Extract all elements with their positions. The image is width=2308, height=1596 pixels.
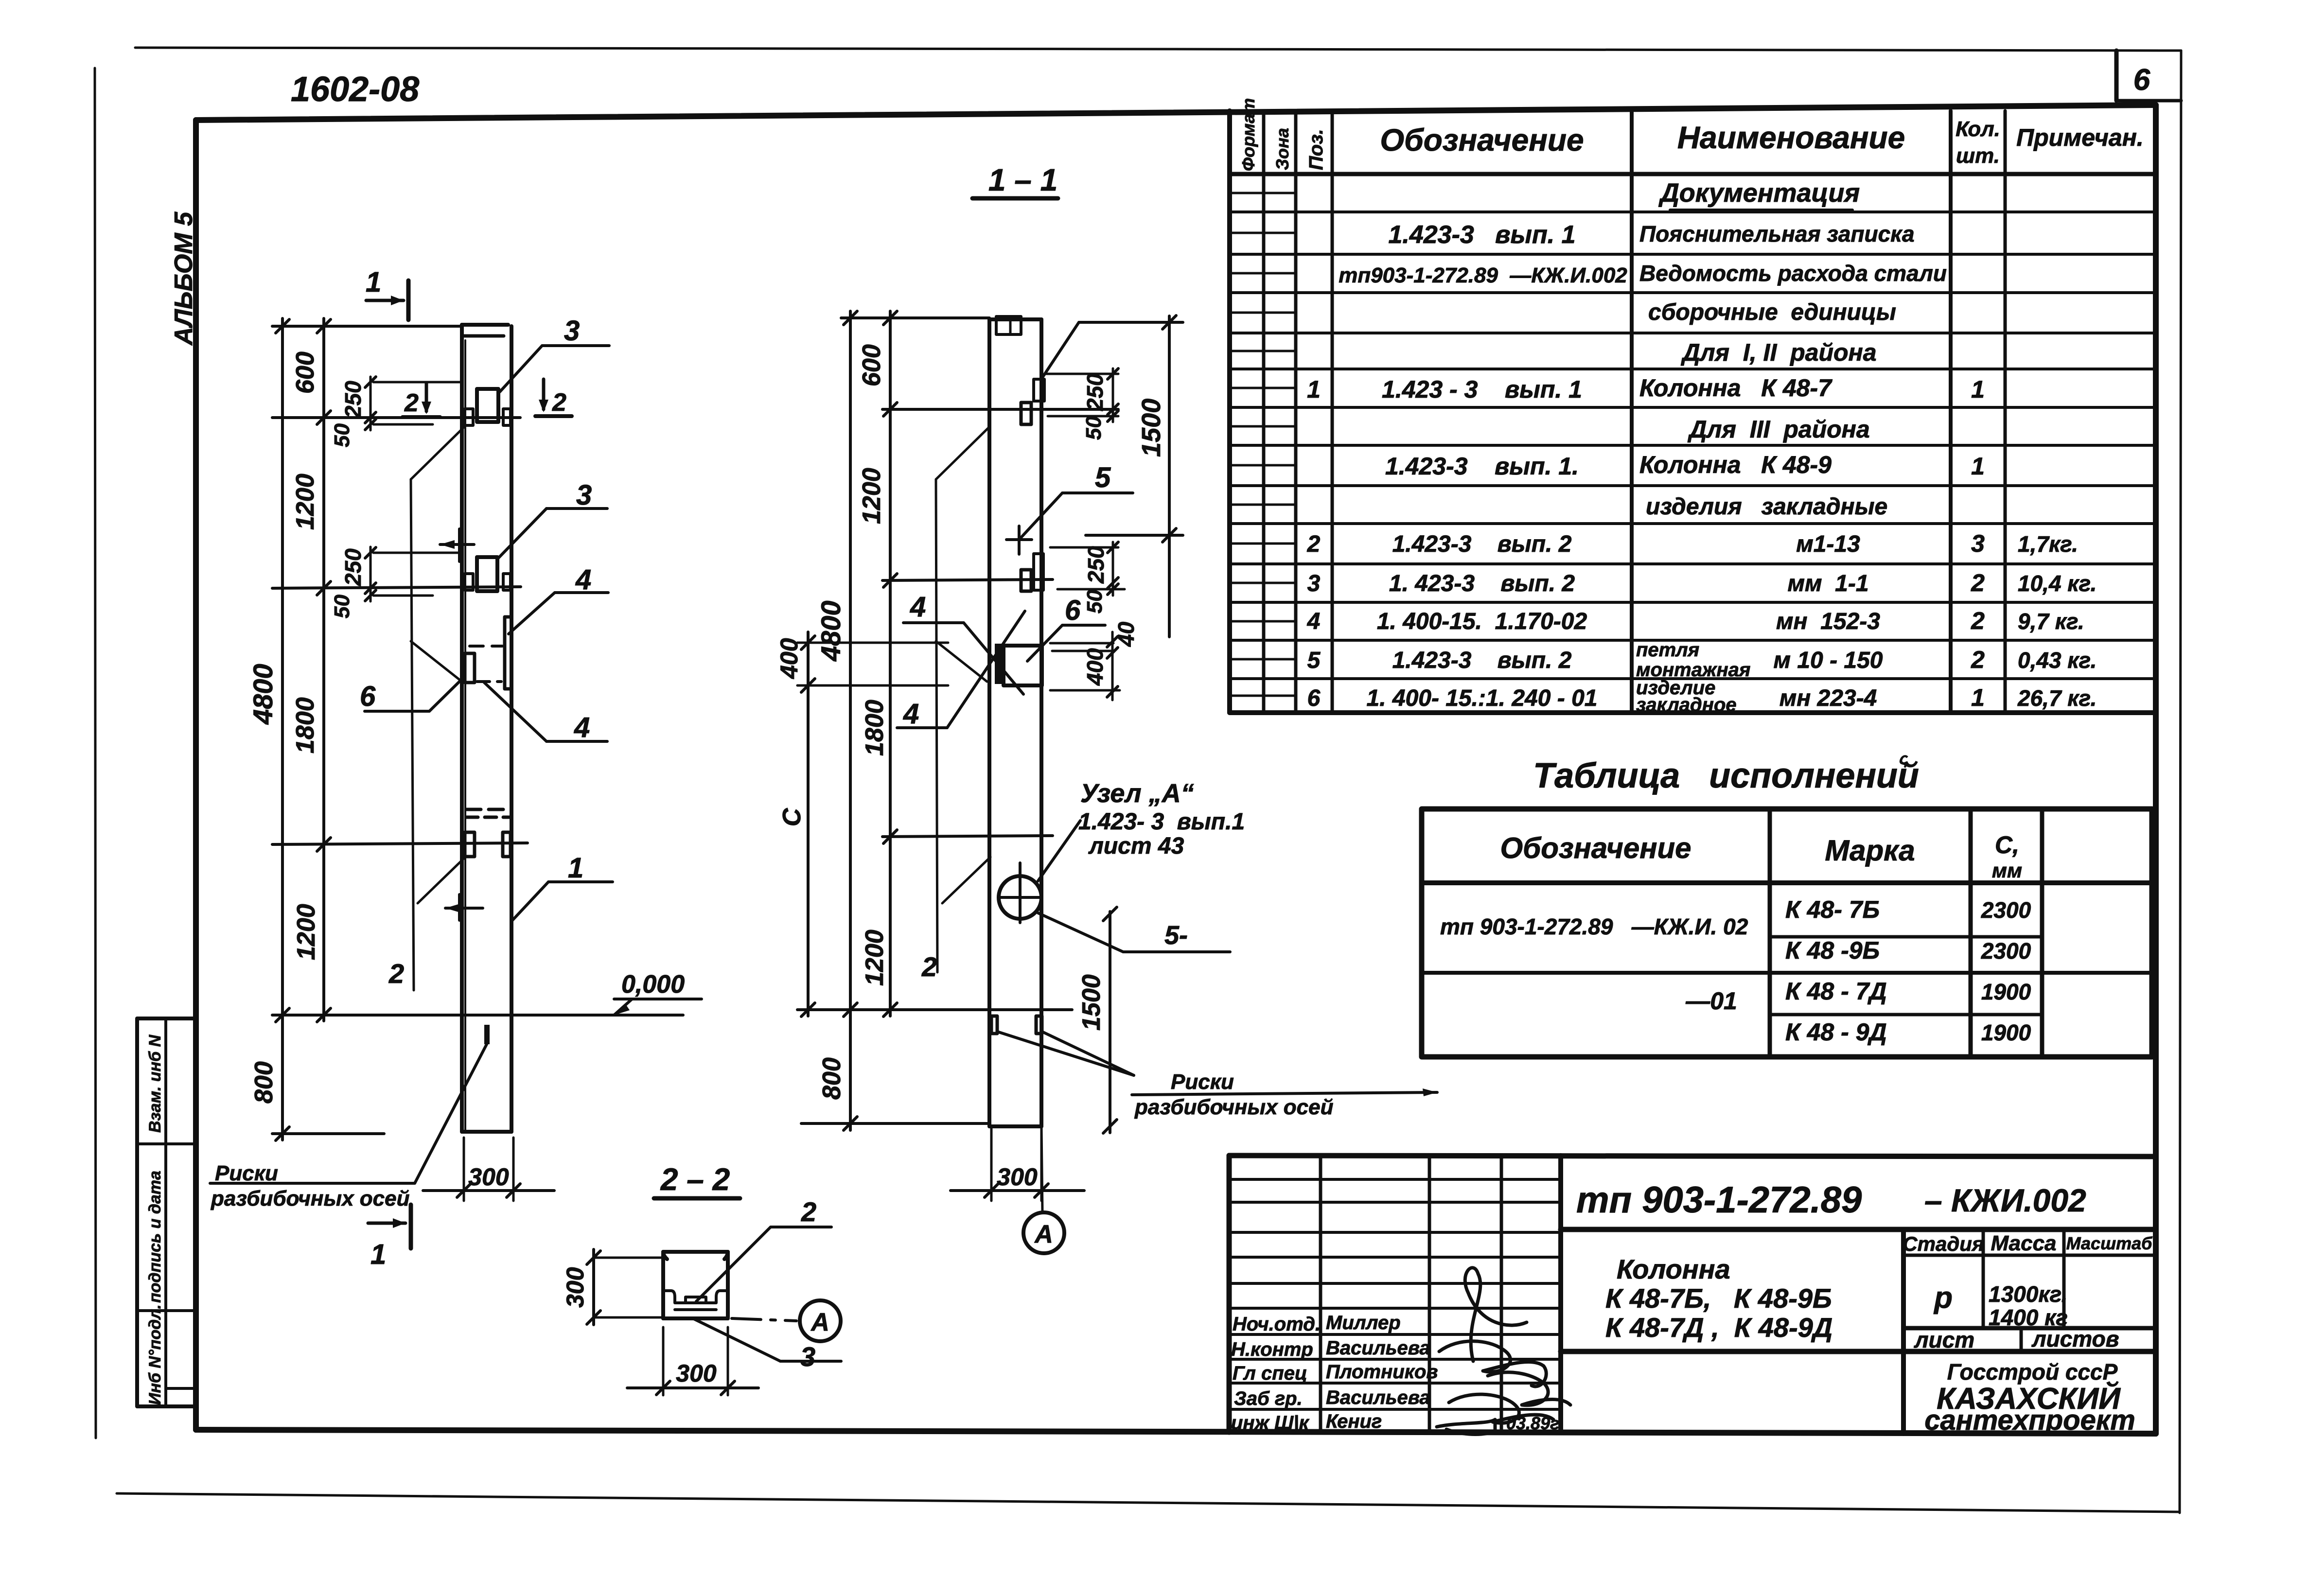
svg-text:400: 400 [775,638,803,679]
handwritten archive number 1602-08 [291,70,419,109]
svg-text:1300кг.: 1300кг. [1989,1281,2067,1307]
svg-text:2300: 2300 [1981,897,2031,923]
svg-text:2: 2 [388,958,404,989]
svg-text:Гл спец: Гл спец [1233,1363,1307,1384]
title block right part grid [1561,1229,2156,1434]
view1 leader 4 bottom [484,683,607,743]
view2 leader to 1500 dim top [1043,322,1183,377]
view1 extension/level lines [272,326,528,1015]
signature rows labels [1231,1312,1564,1434]
svg-text:ς: ς [1899,750,1908,768]
svg-text:С,: С, [1995,831,2019,859]
view1 section trace 2-2 [388,427,465,990]
view1 cross mark bottom [445,894,483,920]
view2 top plate [996,316,1021,334]
left margin stamp labels [146,1034,164,1405]
svg-text:6: 6 [2133,63,2150,97]
view1 level mark 0,000 [380,970,702,1015]
svg-text:2 – 2: 2 – 2 [660,1162,730,1197]
svg-text:Обозначение: Обозначение [1500,832,1691,864]
svg-text:Васильева: Васильева [1326,1337,1430,1359]
svg-text:шт.: шт. [1956,144,2000,168]
view2 small dims 250/50 top [1045,368,1118,440]
section 2-2 dim 300 vertical [562,1249,661,1325]
svg-text:1200: 1200 [858,468,886,524]
svg-text:2: 2 [1971,569,1985,596]
svg-text:4: 4 [910,591,926,623]
svg-text:1200: 1200 [291,474,319,530]
organization name [1924,1359,2135,1436]
svg-text:2: 2 [801,1196,816,1227]
svg-text:С: С [778,807,806,826]
svg-text:Примечан.: Примечан. [2016,124,2144,151]
view1 lifting loop cross mark [440,529,474,561]
svg-text:мм: мм [1992,859,2022,882]
view1 section mark 2 left [403,383,440,417]
svg-text:3: 3 [576,479,592,511]
view1 hidden plate dashes middle [466,809,510,817]
svg-text:мн 152-3: мн 152-3 [1776,609,1880,634]
view2 uzel A callout [1038,779,1245,881]
svg-text:4: 4 [575,564,591,596]
svg-text:тп 903-1-272.89 —КЖ.И. 02: тп 903-1-272.89 —КЖ.И. 02 [1440,914,1748,939]
svg-text:300: 300 [997,1163,1038,1191]
svg-text:Марка: Марка [1825,834,1915,867]
svg-text:3: 3 [800,1341,815,1372]
svg-text:мм 1-1: мм 1-1 [1787,571,1868,596]
svg-text:листов: листов [2031,1326,2119,1351]
svg-text:1.423- 3 вып.1: 1.423- 3 вып.1 [1078,809,1245,835]
svg-text:К 48 - 9Д: К 48 - 9Д [1785,1018,1887,1046]
svg-text:тп903-1-272.89 —КЖ.И.002: тп903-1-272.89 —КЖ.И.002 [1339,263,1627,287]
svg-text:2300: 2300 [1981,938,2031,964]
svg-text:Колонна К 48-7: Колонна К 48-7 [1639,374,1832,402]
title block signature grid [1229,1156,1561,1432]
svg-text:Инб N°подл.: Инб N°подл. [146,1304,164,1405]
svg-text:Заб гр.: Заб гр. [1234,1388,1303,1409]
svg-text:5-: 5- [1164,921,1188,950]
svg-text:– КЖИ.002: – КЖИ.002 [1924,1182,2086,1218]
svg-text:Колонна: Колонна [1617,1254,1730,1284]
svg-text:4: 4 [1307,609,1321,634]
view1 leader 4 top [509,564,608,634]
svg-text:Ноч.отд.: Ноч.отд. [1233,1314,1321,1335]
section 2-2 leader 3 [693,1318,841,1372]
svg-text:26,7 кг.: 26,7 кг. [2017,685,2097,711]
svg-text:50: 50 [330,595,354,618]
svg-text:разбибочных осей: разбибочных осей [1134,1095,1334,1119]
view2 section trace 2 [921,427,990,982]
svg-text:подпись и дата: подпись и дата [146,1171,164,1303]
svg-text:Зона: Зона [1272,128,1292,170]
svg-text:разбибочных осей: разбибочных осей [211,1187,410,1210]
svg-text:50: 50 [1083,590,1107,614]
svg-text:300: 300 [676,1360,717,1387]
svg-text:250: 250 [1082,373,1108,411]
svg-text:петля: петля [1636,639,1699,661]
view2 dim 800 [801,1021,987,1130]
svg-text:А: А [1034,1220,1053,1248]
view1 brackets at level 1800 [465,832,511,857]
svg-text:1800: 1800 [861,700,889,756]
view1 bottom axis riska mark [484,1025,490,1044]
svg-text:сборочные единицы: сборочные единицы [1648,299,1896,325]
svg-text:Наименование: Наименование [1677,120,1905,155]
svg-text:мн 223-4: мн 223-4 [1779,685,1877,711]
svg-text:Госстрой сссР: Госстрой сссР [1947,1359,2118,1385]
left margin stamp boxes [137,1018,196,1406]
view2 total dim 4800 [815,311,857,1021]
svg-text:1: 1 [568,852,583,884]
view1 small dims 250/50 top [330,377,462,447]
drawing frame (thick border) [196,105,2156,1434]
view1 column body K48 [462,325,511,1132]
svg-text:1.423-3 вып. 2: 1.423-3 вып. 2 [1392,648,1572,673]
svg-text:3: 3 [1307,571,1321,596]
part name Колонна [1605,1254,1832,1343]
svg-text:10,4 кг.: 10,4 кг. [2018,571,2097,596]
view2 dim 1500 top right [1086,316,1183,637]
svg-text:1,7кг.: 1,7кг. [2018,531,2078,557]
svg-text:К 48-7Д , К 48-9Д: К 48-7Д , К 48-9Д [1605,1312,1832,1343]
view2 embedded item6 box [995,644,1042,685]
svg-text:сантехпроект: сантехпроект [1924,1404,2135,1436]
svg-text:1500: 1500 [1137,399,1166,457]
svg-text:—01: —01 [1685,987,1737,1015]
svg-text:Ведомость расхода стали: Ведомость расхода стали [1639,261,1947,286]
svg-text:1. 400- 15.:1. 240 - 01: 1. 400- 15.:1. 240 - 01 [1367,685,1598,711]
view2 leader 6 [1027,595,1105,661]
svg-text:50: 50 [330,423,354,447]
svg-text:1.423 - 3 вып. 1: 1.423 - 3 вып. 1 [1382,376,1582,403]
view1 embedded plate item3 middle [465,557,511,591]
view1 small dims 250/50 middle [330,547,462,618]
view1 leader 3 middle [497,479,607,559]
svg-text:Для I, II района: Для I, II района [1680,339,1876,366]
svg-text:40: 40 [1113,621,1139,647]
svg-text:инж Ш|к: инж Ш|к [1231,1412,1310,1434]
view2 segment dim line [858,311,897,1017]
svg-text:600: 600 [291,351,319,394]
svg-text:600: 600 [858,344,886,386]
svg-text:3: 3 [1971,530,1985,557]
specification table grid [1230,111,2156,713]
svg-text:А: А [810,1308,829,1336]
svg-text:Поз.: Поз. [1305,129,1327,170]
svg-text:Плотников: Плотников [1326,1361,1438,1383]
svg-text:Колонна К 48-9: Колонна К 48-9 [1639,451,1832,478]
svg-text:1.423-3 вып. 1.: 1.423-3 вып. 1. [1385,453,1579,480]
svg-text:Васильева: Васильева [1326,1387,1430,1408]
section 2-2 dim 300 horizontal [627,1327,758,1395]
svg-text:300: 300 [468,1163,509,1191]
svg-text:4800: 4800 [815,600,846,662]
svg-text:6: 6 [1065,595,1081,626]
svg-text:1: 1 [1971,453,1985,480]
svg-text:800: 800 [250,1061,278,1104]
svg-text:Миллер: Миллер [1326,1312,1401,1333]
svg-text:2: 2 [1971,607,1985,634]
svg-text:250: 250 [1083,546,1109,584]
svg-text:Кениг: Кениг [1326,1411,1382,1432]
svg-text:Риски: Риски [1171,1070,1234,1094]
view2 axis line to circle A [1023,1126,1064,1253]
svg-text:Кол.: Кол. [1956,117,2000,141]
svg-text:1. 400-15. 1.170-02: 1. 400-15. 1.170-02 [1377,609,1587,634]
versions table grid [1422,809,2152,1057]
view1 section mark 1 bottom [368,1205,411,1270]
svg-text:300: 300 [562,1267,589,1308]
svg-text:250: 250 [340,381,366,419]
section 2-2 axis to node A [732,1300,841,1341]
view2 riski label with leaders [997,1032,1437,1119]
svg-text:0,000: 0,000 [621,970,685,999]
view2 node A circle with cross [999,863,1041,923]
svg-text:Стадия: Стадия [1903,1232,1984,1255]
view2 column body [989,319,1041,1126]
svg-text:м1-13: м1-13 [1796,531,1860,557]
svg-text:р: р [1933,1281,1953,1315]
svg-text:2: 2 [1307,531,1321,557]
svg-text:К 48- 7Б: К 48- 7Б [1785,896,1880,923]
stage/mass/scale cells [1903,1231,2153,1352]
title block outer frame [1229,1156,2156,1432]
view2 dim 1500 bottom [1077,907,1117,1133]
vertical label АЛЬБОМ 5 [170,211,198,346]
svg-text:К 48 - 7Д: К 48 - 7Д [1785,978,1887,1005]
view1 leader 1 [512,852,613,920]
svg-text:1200: 1200 [292,904,320,960]
svg-text:К 48 -9Б: К 48 -9Б [1785,937,1880,964]
svg-text:6: 6 [360,681,376,712]
svg-text:Таблица исполнений: Таблица исполнений [1533,756,1919,795]
svg-text:2: 2 [404,389,419,417]
view1 riski label with leader [210,1044,487,1210]
view1 dimension 800 bottom [250,1021,384,1140]
svg-text:Масштаб: Масштаб [2066,1233,2153,1253]
view2 plates at 600 level [1021,379,1044,424]
svg-text:250: 250 [340,548,366,586]
svg-text:1 – 1: 1 – 1 [988,162,1057,197]
specification table headers [1238,98,2144,171]
svg-text:400: 400 [1082,648,1108,686]
view2 small dims 250/50 middle [1050,542,1125,614]
section 2-2 title [654,1162,740,1198]
svg-text:5: 5 [1307,648,1321,673]
svg-text:4: 4 [574,712,590,743]
view2 extension/level lines [797,318,1118,1010]
versions table text [1440,831,2031,1046]
view1 leader 3 top [500,315,609,392]
svg-text:5: 5 [1095,462,1111,493]
svg-text:1: 1 [366,266,381,298]
svg-text:2: 2 [552,388,566,417]
versions table title [1533,750,1919,795]
svg-text:Документация: Документация [1658,178,1860,208]
svg-text:1.423-3 вып. 2: 1.423-3 вып. 2 [1392,531,1572,557]
svg-text:0,43 кг.: 0,43 кг. [2018,648,2097,673]
svg-text:Риски: Риски [215,1161,278,1185]
view2 bottom dim 300 [951,1126,1084,1201]
svg-text:1: 1 [1307,376,1321,403]
svg-text:закладное: закладное [1636,694,1737,716]
svg-text:1500: 1500 [1077,974,1106,1031]
svg-text:3: 3 [564,315,580,347]
view1 section mark 1 top [366,266,408,320]
svg-text:1: 1 [1971,684,1985,711]
svg-text:1: 1 [1971,376,1985,403]
view1 bottom dim 300 [423,1138,554,1201]
svg-text:Узел „А“: Узел „А“ [1080,779,1194,808]
view2 plates at 1200 level [1021,554,1043,591]
svg-text:2: 2 [921,951,937,982]
svg-text:тп 903-1-272.89: тп 903-1-272.89 [1576,1179,1862,1221]
svg-text:4: 4 [903,698,919,730]
svg-text:изделия закладные: изделия закладные [1646,494,1887,520]
section 2-2 leader 2 [696,1196,831,1301]
svg-text:Для III района: Для III района [1687,416,1869,443]
svg-text:Формат: Формат [1238,98,1258,171]
svg-text:Масса: Масса [1991,1231,2056,1255]
view2 crossing leaders 4 [897,591,1025,730]
view2 small dims 40/400 [1050,621,1139,700]
sheet number box with 6 [2116,51,2181,101]
view2 bottom riska marks [991,1016,1042,1034]
view1 segment dimension line [291,318,331,1022]
svg-text:1900: 1900 [1981,1020,2031,1045]
svg-text:9,7 кг.: 9,7 кг. [2018,609,2084,634]
svg-text:1602-08: 1602-08 [291,70,419,109]
view1 embedded plate item4 right [470,617,511,689]
view2 dim 400 and C line [775,632,948,1017]
svg-text:лист 43: лист 43 [1088,833,1184,859]
view2 lifting loop cross with leader 5 [1006,462,1133,554]
svg-text:4800: 4800 [247,664,278,725]
svg-text:1200: 1200 [861,930,889,986]
signatures scribbles [1437,1268,1570,1435]
svg-text:50: 50 [1082,416,1106,440]
section 2-2 body square with channel [663,1252,728,1318]
svg-text:1: 1 [370,1239,386,1270]
svg-text:1.423-3 вып. 1: 1.423-3 вып. 1 [1388,221,1575,249]
svg-text:лист: лист [1914,1327,1974,1352]
svg-text:2: 2 [1971,646,1985,673]
view1 section mark 2 right [535,379,572,417]
view1 embedded plate item6 left [465,653,501,683]
svg-text:800: 800 [818,1057,846,1100]
svg-text:1800: 1800 [291,697,319,754]
view1 total dimension 4800 [247,318,289,1022]
svg-text:Пояснительная записка: Пояснительная записка [1639,221,1915,246]
svg-text:6: 6 [1307,685,1321,711]
svg-text:К 48-7Б, К 48-9Б: К 48-7Б, К 48-9Б [1605,1283,1832,1314]
svg-text:1. 423-3 вып. 2: 1. 423-3 вып. 2 [1389,571,1575,596]
svg-text:1900: 1900 [1981,979,2031,1004]
specification table rows text [1307,178,2097,716]
svg-text:Взам. инб N: Взам. инб N [146,1034,164,1133]
view1 embedded plate item3 top [465,389,511,425]
svg-text:Н.контр: Н.контр [1231,1339,1313,1360]
view1 leader 6 [360,680,461,712]
view2 leader 5- bottom [1038,913,1230,952]
svg-text:Обозначение: Обозначение [1380,123,1584,158]
svg-text:м 10 - 150: м 10 - 150 [1774,648,1883,673]
document number тп 903-1-272.89 [1576,1179,2086,1221]
view2 title 1-1 [972,162,1058,198]
